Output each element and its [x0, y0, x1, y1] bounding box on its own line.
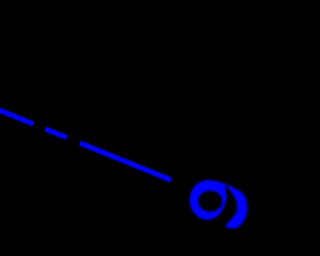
- wire: long stroke segment 3: [80, 143, 171, 180]
- wire: long diagonal stroke segment 1: [0, 110, 33, 124]
- wire: dash segment 2: [45, 129, 67, 138]
- node 9: hand-drawn nine glyph (loop with tail): [190, 180, 248, 229]
